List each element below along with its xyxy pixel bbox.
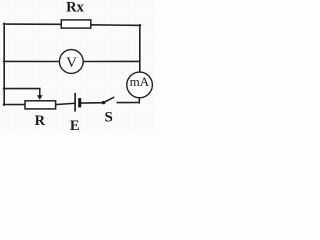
battery E xyxy=(75,93,81,112)
ammeter mA xyxy=(127,72,153,98)
wire: right vertical upper xyxy=(139,25,141,72)
svg-text:S: S xyxy=(105,109,113,125)
svg-text:V: V xyxy=(66,55,77,71)
voltmeter V xyxy=(59,50,83,74)
svg-text:E: E xyxy=(70,118,80,133)
rheostat R xyxy=(25,101,56,109)
wire: rheostat to battery xyxy=(56,103,75,104)
wire: top-left horizontal xyxy=(4,23,62,25)
wire: switch to corner xyxy=(117,102,139,104)
wire: battery to switch xyxy=(81,102,103,104)
wire: middle horizontal left xyxy=(4,60,59,62)
wire: left vertical xyxy=(3,23,5,105)
wire: bottom-left horizontal xyxy=(4,104,25,106)
svg-text:Rx: Rx xyxy=(66,0,84,15)
svg-text:R: R xyxy=(35,113,46,129)
rheostat slider arrow xyxy=(37,89,43,100)
wire: branch to slider xyxy=(4,88,40,90)
wire: corner up to ammeter xyxy=(138,98,140,103)
switch S xyxy=(102,97,114,104)
resistor Rx xyxy=(61,20,91,28)
svg-text:mA: mA xyxy=(130,74,150,89)
wire: top-right horizontal xyxy=(91,24,140,27)
wire: middle horizontal right xyxy=(84,60,140,62)
